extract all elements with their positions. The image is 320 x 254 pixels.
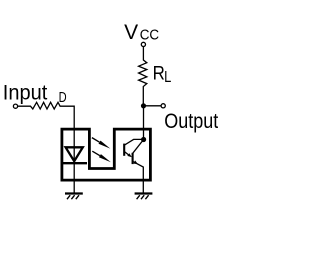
svg-text:V: V — [124, 21, 138, 44]
svg-text:L: L — [164, 69, 171, 86]
svg-text:Input: Input — [3, 81, 48, 105]
svg-text:R: R — [153, 63, 165, 85]
svg-text:CC: CC — [140, 27, 160, 44]
svg-text:D: D — [59, 90, 67, 106]
svg-text:Output: Output — [164, 109, 218, 133]
